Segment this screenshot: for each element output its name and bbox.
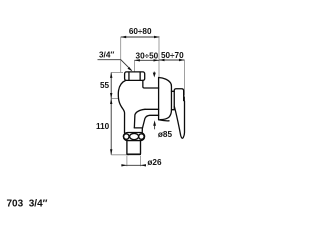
outlet pipe (126, 141, 128, 154)
dimension 50÷70 (159, 59, 185, 61)
inner outlet tube (134, 109, 145, 128)
handle hub (174, 89, 183, 109)
body left outline (118, 80, 125, 132)
pipe end (126, 153, 141, 155)
cone connector top (172, 90, 175, 92)
svg-text:55: 55 (100, 81, 110, 90)
extension line 55 top (111, 71, 123, 73)
outlet internal step (134, 127, 141, 129)
extension line 110 bottom (111, 154, 129, 156)
svg-text:3/4″: 3/4″ (99, 51, 114, 60)
svg-text:ø26: ø26 (147, 158, 162, 167)
svg-text:110: 110 (96, 122, 110, 131)
dimension 55 (110, 72, 112, 98)
dimension 110 (110, 99, 112, 155)
hub bump (183, 96, 185, 101)
cone connector bottom (172, 109, 175, 111)
outer outlet shell (142, 115, 158, 132)
cap left face (158, 78, 160, 120)
extension line 30÷50 to nut centre (133, 60, 135, 71)
hex nut 3/4 inlet (125, 72, 145, 81)
svg-text:60÷80: 60÷80 (129, 27, 152, 36)
extension line 55/110 middle (111, 98, 118, 100)
flange bottom edge (159, 120, 169, 121)
extension line left of 60÷80 (120, 37, 122, 72)
extension line 50÷70 to lever (184, 60, 186, 96)
svg-text:50÷70: 50÷70 (161, 51, 184, 60)
ring nut on outlet (123, 133, 144, 141)
arm bottom edge (145, 108, 159, 110)
lever (174, 101, 184, 138)
dimension 30÷50 (134, 59, 159, 61)
dimension 60÷80 (121, 36, 160, 38)
label ø85 with arrows (153, 72, 155, 74)
svg-text:ø85: ø85 (158, 130, 173, 139)
svg-text:703 3/4″: 703 3/4″ (7, 199, 48, 210)
body right shoulder to arm top (143, 80, 159, 88)
extension line shared center (wall plane) (158, 37, 160, 77)
cap dome outline (159, 78, 172, 120)
dimension ø26 (126, 156, 128, 166)
svg-text:30÷50: 30÷50 (136, 51, 159, 60)
